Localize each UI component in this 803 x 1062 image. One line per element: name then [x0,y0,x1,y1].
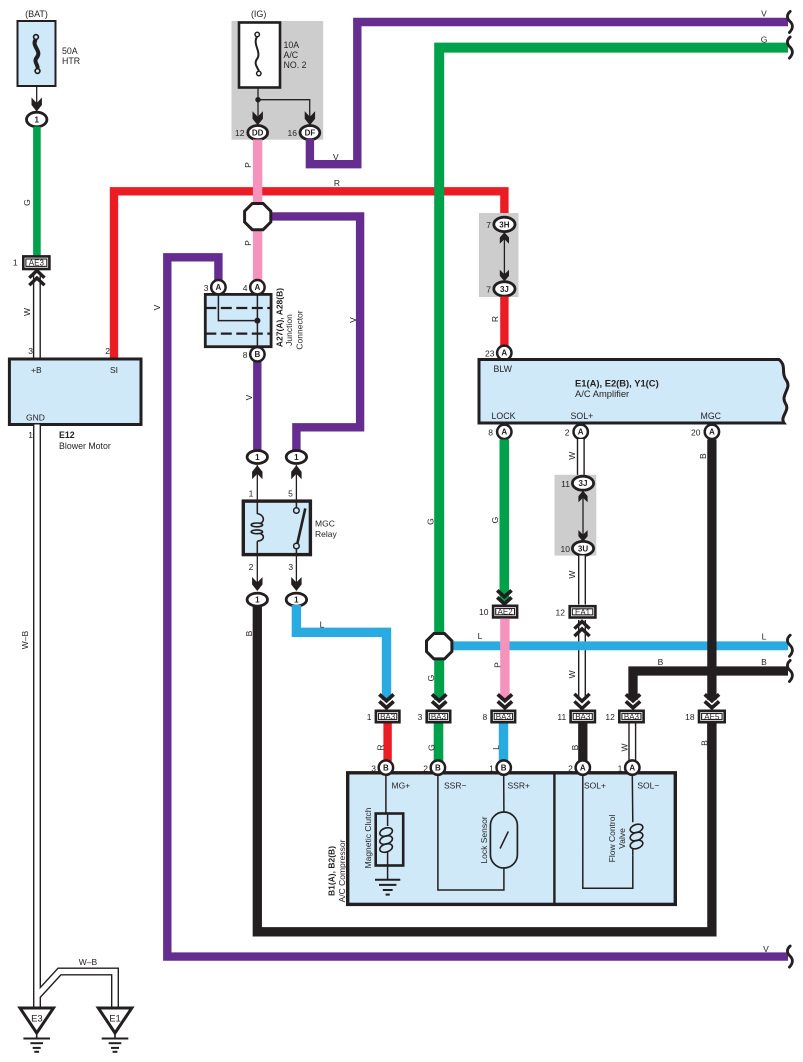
svg-text:1: 1 [618,764,623,774]
label W sol2 [567,571,577,579]
connector 7 3H [486,217,515,231]
svg-text:A: A [216,283,222,292]
svg-text:V: V [763,944,769,954]
svg-text:AE5: AE5 [704,713,720,722]
wire P pink (junction to 4A) [253,229,262,281]
label W sol [620,743,630,751]
label W sol3 [567,670,577,678]
pin 3 A [204,280,226,294]
svg-text:3J: 3J [579,479,588,488]
svg-text:B: B [501,764,507,773]
svg-text:1: 1 [294,596,299,605]
junction connector A27(A) A28(B) [205,294,271,346]
svg-text:B: B [761,657,767,667]
svg-text:B: B [383,764,389,773]
connector 12 DD [235,126,268,140]
wire L blue (relay to 1 BA3) [296,605,386,700]
pin 2 A SOL+ [568,760,590,774]
relay pin numbers [249,489,294,573]
label L mid [478,631,483,641]
wire V purple (8B to relay 1) [253,362,261,452]
svg-text:2: 2 [568,764,573,774]
connector 1 (relay pin3 bottom) [286,593,306,606]
blower motor pin 2 [105,346,110,356]
svg-text:B1(A), B2(B): B1(A), B2(B) [327,846,337,896]
arrow relay5 [291,465,301,479]
pin 8 B [243,347,265,361]
label E12 Blower Motor [28,430,111,451]
break G top [787,37,792,58]
connector 10 AE2 [479,605,518,619]
svg-text:BA3: BA3 [624,713,640,722]
arrow into AE3 [29,271,44,286]
svg-text:A: A [578,428,584,437]
label MGC Relay [315,519,337,540]
svg-text:V: V [348,317,358,323]
connector 1 (relay pin2 bottom) [247,593,267,606]
wire B black (below AE5) [707,723,716,760]
svg-text:L: L [320,620,325,630]
svg-text:4: 4 [243,283,248,293]
connector AE3 [13,255,51,270]
connector 7 3J [486,282,515,296]
svg-text:A: A [580,764,586,773]
svg-text:B: B [570,744,580,750]
svg-text:A/C Amplifier: A/C Amplifier [575,388,629,399]
fuse panel (IG) background [232,21,324,140]
wire P pink (DD to junction) [253,140,262,204]
svg-text:W: W [567,670,577,678]
svg-text:3U: 3U [578,544,588,553]
label G ssr [426,744,436,751]
label Flow Control Valve [607,815,627,863]
svg-text:R: R [490,316,500,322]
label G green vertical [426,518,436,525]
wire P pink (AE2 to 8 BA3) [500,619,509,700]
svg-text:W–B: W–B [20,630,30,649]
svg-text:18: 18 [685,712,695,722]
label V left [152,304,162,310]
svg-text:Blower Motor: Blower Motor [59,441,111,451]
svg-text:Magnetic Clutch: Magnetic Clutch [363,807,373,868]
fuse 10A A/C NO. 2 [239,23,307,88]
splice octagon 2 [427,634,452,659]
wire to relay pins [257,465,296,501]
pin 8 A LOCK [488,425,511,439]
svg-text:MG+: MG+ [392,781,411,791]
svg-text:W: W [567,571,577,579]
svg-text:E3: E3 [31,1014,43,1025]
arrow into 12 BA3 [626,694,640,707]
wire G green (LOCK to AE2) [499,440,509,602]
ground E1 [98,1008,132,1052]
svg-text:A: A [255,283,261,292]
arrow into DD [253,111,263,125]
svg-text:23: 23 [485,349,495,359]
wire W white (2A to 3J) [577,439,585,477]
svg-text:7: 7 [486,285,491,295]
wire relay pins down [257,555,296,588]
svg-text:A: A [629,764,635,773]
svg-text:2: 2 [423,764,428,774]
svg-text:1: 1 [255,453,260,462]
wire G green (3 BA3 to SSR-) [434,724,444,762]
svg-text:W–B: W–B [79,957,98,967]
svg-text:L: L [491,745,501,750]
svg-text:G: G [426,518,436,525]
wire fuse to DD/DF [258,88,310,122]
connector 8 BA3 [482,710,516,724]
svg-text:G: G [426,744,436,751]
svg-text:E1(A), E2(B), Y1(C): E1(A), E2(B), Y1(C) [575,378,659,389]
label Lock Sensor [479,816,489,863]
arrow relay3 [291,577,301,591]
svg-text:Lock Sensor: Lock Sensor [479,816,489,863]
break V top [787,11,792,32]
svg-text:50A: 50A [62,46,78,56]
svg-text:3J: 3J [500,285,509,294]
wire B black (MGC 20A down) [707,440,716,701]
svg-text:E1: E1 [109,1014,121,1025]
svg-text:10: 10 [561,544,571,554]
wire W white (AE3 to blower) [33,272,41,359]
svg-text:V: V [761,9,767,19]
panel 3J/3U background [555,475,597,556]
label B1(A), B2(B) A/C Compressor [327,839,348,902]
connector 11 3J [561,476,593,490]
svg-text:1: 1 [367,712,372,722]
arrow into AE2 [497,590,511,603]
break B [787,660,792,681]
label W-B horizontal [79,957,98,967]
svg-text:11: 11 [557,712,566,722]
label R 3J [490,316,500,322]
svg-text:DD: DD [252,129,264,138]
label G lock [490,517,500,524]
wire B black (11 BA3 to SOL+) [578,724,587,762]
wire W white (12 BA3 to SOL-) [628,724,636,762]
arrow pair 3H-3J [500,232,509,281]
arrow into 3 BA3 [432,694,446,707]
svg-text:B: B [658,657,664,667]
label L relay [320,620,325,630]
svg-text:Junction: Junction [284,314,294,346]
svg-text:B: B [255,350,261,359]
svg-text:3H: 3H [499,220,509,229]
label B mgc [698,453,708,459]
label A27(A), A28(B) [275,288,285,347]
fuse 50A HTR (BAT) [18,9,81,86]
svg-text:20: 20 [691,428,701,438]
connector 18 AE5 [685,710,726,724]
svg-text:G: G [490,517,500,524]
svg-text:3: 3 [204,283,209,293]
svg-text:7: 7 [486,220,491,230]
A/C amplifier box [479,360,788,424]
label V 8B [244,394,254,400]
pin 2 B SSR- [423,760,445,774]
connector 10 3U [561,541,594,555]
svg-text:1: 1 [28,430,33,440]
label V [348,317,358,323]
arrow pair 3J-3U [578,491,587,542]
svg-text:1: 1 [13,258,18,268]
label V top right [761,9,767,19]
wire W-B to grounds [37,425,115,1008]
svg-text:BA3: BA3 [575,713,591,722]
svg-text:12: 12 [235,128,245,138]
svg-text:12: 12 [605,712,615,722]
arrow into 11 BA3 [574,694,589,709]
svg-text:P: P [493,662,503,668]
connector 1 (battery feed) [27,112,47,127]
svg-text:A: A [501,428,507,437]
label B ae5 [699,740,709,746]
svg-text:8: 8 [482,712,487,722]
svg-text:W: W [22,308,32,316]
label P ae2 [493,662,503,668]
wire G green (IG feed) [439,48,788,700]
svg-text:G: G [426,675,436,682]
blower motor pin 3 [28,346,33,356]
label G top right [761,35,768,45]
svg-text:3: 3 [371,764,376,774]
label P [243,162,253,168]
svg-text:BA3: BA3 [496,713,512,722]
wire L blue (splice to right edge) [450,641,788,650]
label B relay [244,630,254,636]
svg-text:MGC: MGC [701,411,722,421]
svg-text:Connector: Connector [295,310,305,349]
wire fuse to connector [32,86,42,112]
svg-text:DF: DF [305,129,316,138]
arrow into 8 BA3 [498,694,512,707]
ground E3 [20,1008,54,1052]
svg-text:1: 1 [489,764,494,774]
svg-text:16: 16 [288,128,298,138]
svg-text:B: B [435,764,441,773]
svg-text:10: 10 [479,607,489,617]
svg-text:11: 11 [561,479,570,489]
wire R red (3J to amplifier) [500,297,508,349]
pin 1 B SSR+ [489,760,511,774]
svg-text:2: 2 [249,562,254,572]
svg-text:Relay: Relay [315,529,337,539]
label P 2 [243,240,253,246]
svg-text:Flow Control: Flow Control [607,815,617,863]
arrow relay1 [252,465,262,479]
wire B black (relay to AE5) [257,605,712,932]
label W [22,308,32,316]
svg-text:A27(A), A28(B): A27(A), A28(B) [275,288,285,347]
break L [787,635,792,656]
svg-text:SSR+: SSR+ [508,781,530,791]
svg-text:P: P [243,162,253,168]
svg-text:SI: SI [110,365,118,375]
arrow relay2 [252,577,262,591]
flow control valve [583,775,644,888]
svg-text:Valve: Valve [617,828,627,849]
connector 1 (relay pin1 top) [247,451,267,464]
pin 23 A [485,346,511,360]
wire W white (3U to EA1) [578,556,586,605]
svg-text:B: B [244,630,254,636]
label Junction Connector [284,310,305,349]
svg-text:BA3: BA3 [380,713,396,722]
svg-text:+B: +B [31,365,42,375]
svg-text:A: A [709,428,715,437]
svg-text:1: 1 [34,115,39,124]
svg-text:MGC: MGC [315,519,335,529]
svg-text:HTR: HTR [62,56,80,66]
svg-text:GND: GND [26,413,45,423]
svg-text:B: B [698,453,708,459]
svg-text:(BAT): (BAT) [25,9,48,19]
connector 1 (relay pin5 top) [286,451,306,464]
wire G green (fuse to AE3) [33,127,41,256]
svg-text:SOL+: SOL+ [584,781,606,791]
svg-text:EA1: EA1 [575,608,591,617]
label L right [762,632,767,642]
svg-text:5: 5 [288,489,293,499]
svg-text:A/C: A/C [284,50,299,60]
svg-text:V: V [333,152,339,162]
svg-text:SSR−: SSR− [444,781,466,791]
label W-B vertical [20,630,30,649]
magnetic clutch [376,775,404,866]
svg-text:R: R [376,744,386,750]
connector 16 DF [288,126,320,140]
svg-text:1: 1 [294,453,299,462]
clutch ground [375,866,400,895]
arrow into DF [305,111,315,125]
svg-text:G: G [22,199,32,206]
svg-text:2: 2 [565,428,570,438]
svg-text:1: 1 [249,489,254,499]
svg-text:2: 2 [105,346,110,356]
svg-text:8: 8 [243,350,248,360]
panel 3H/3J background [479,213,519,297]
svg-text:V: V [244,394,254,400]
svg-text:1: 1 [255,596,260,605]
splice octagon 1 [245,204,271,230]
svg-text:SOL−: SOL− [637,781,659,791]
wire V purple (3A to bottom right edge) [167,257,788,956]
wire V purple (junction to relay 5) [272,216,360,451]
label R mg [376,744,386,750]
svg-text:A/C Compressor: A/C Compressor [337,839,347,902]
svg-text:SOL+: SOL+ [571,411,594,421]
svg-text:A: A [501,349,507,358]
blower motor E12 [9,359,141,425]
label B mid [658,657,664,667]
svg-text:B: B [699,740,709,746]
svg-text:W: W [620,743,630,751]
svg-text:NO. 2: NO. 2 [284,60,307,70]
terminal labels [392,781,660,791]
arrow into 18 AE5 [705,694,719,707]
svg-text:8: 8 [488,428,493,438]
wire L blue (8 BA3 to SSR+) [499,724,508,762]
connector 1 BA3 [367,710,401,724]
svg-text:L: L [478,631,483,641]
label Magnetic Clutch [363,807,373,868]
pin 1 A SOL- [618,760,640,774]
label W sol1 [567,452,577,460]
svg-text:3: 3 [418,712,423,722]
wire W white (EA1 to 11 BA3) [578,620,586,700]
A/C compressor box [348,773,676,905]
label (IG) [251,9,267,19]
svg-text:AE3: AE3 [29,259,45,268]
label B sol [570,744,580,750]
label G [22,199,32,206]
pin 20 A MGC [691,425,719,439]
wire B black (branch to 12 BA3 and right edge) [633,671,788,700]
arrow out of EA1 [574,622,589,637]
svg-text:BA3: BA3 [431,713,447,722]
svg-text:LOCK: LOCK [492,411,516,421]
pin 3 B MG+ [371,760,393,774]
svg-text:R: R [334,178,340,188]
wire R red (1 BA3 to MG+) [383,724,391,762]
connector 3 BA3 [418,710,452,724]
svg-text:L: L [762,632,767,642]
connector 11 BA3 [557,710,596,724]
svg-text:10A: 10A [284,40,300,50]
arrow into 1 BA3 [379,694,393,707]
connector 12 BA3 [605,710,644,724]
break V bottom [787,946,792,967]
label V bottom right [763,944,769,954]
svg-text:W: W [567,452,577,460]
wire V purple (DF to right edge) [310,22,788,164]
lock sensor [438,775,518,890]
svg-text:AE2: AE2 [498,608,514,617]
svg-text:12: 12 [556,608,566,618]
pin 4 A [243,280,265,294]
svg-text:E12: E12 [59,430,75,440]
label G below splice [426,675,436,682]
svg-text:V: V [152,304,162,310]
svg-text:(IG): (IG) [251,9,267,19]
junction dot [255,97,260,102]
pin 2 A SOL [565,425,588,439]
wire R red net [114,191,504,359]
connector 12 EA1 [556,605,597,619]
label R [334,178,340,188]
label V near DF [333,152,339,162]
svg-text:P: P [243,240,253,246]
label L ssr [491,745,501,750]
label B right [761,657,767,667]
svg-text:BLW: BLW [494,364,513,374]
MGC relay box [243,501,310,555]
svg-text:3: 3 [28,346,33,356]
svg-text:G: G [761,35,768,45]
svg-text:3: 3 [288,562,293,572]
